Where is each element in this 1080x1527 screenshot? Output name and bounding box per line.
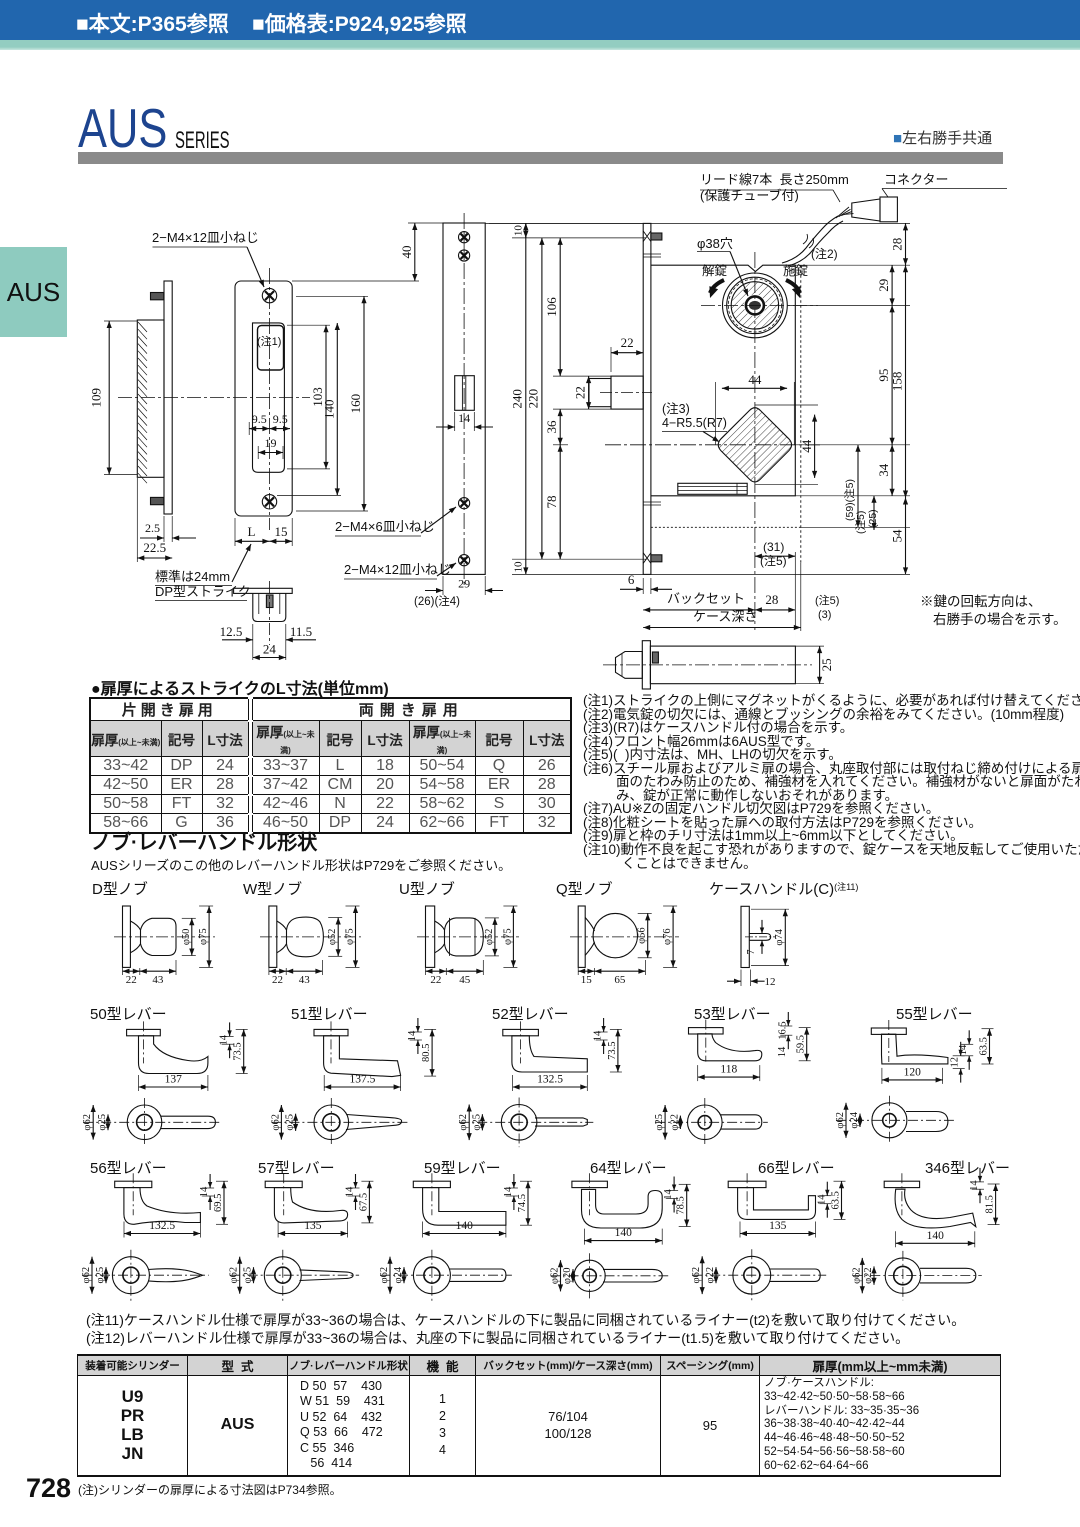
- Q knob: [578, 906, 585, 967]
- svg-text:120: 120: [904, 1066, 922, 1078]
- svg-text:φ25: φ25: [243, 1267, 254, 1284]
- dim 158: [905, 265, 907, 497]
- connector body: [852, 199, 880, 221]
- svg-text:132.5: 132.5: [149, 1220, 175, 1232]
- centerline strike views: [118, 397, 310, 399]
- svg-text:φ22: φ22: [863, 1267, 874, 1284]
- dim 240: [525, 223, 527, 574]
- faceplate dim 29: [442, 576, 444, 595]
- connector pins: [836, 207, 849, 218]
- svg-text:φ62: φ62: [458, 1114, 469, 1131]
- dim L 15: [234, 518, 236, 546]
- DP strike centerline: [268, 581, 270, 645]
- L dim table: [89, 697, 572, 834]
- cylinder: [723, 273, 788, 338]
- dim (31)(注5) horizontal: [755, 555, 795, 557]
- svg-text:15: 15: [581, 974, 593, 986]
- lever 51 side view: [314, 1029, 348, 1035]
- dim 54: [905, 498, 907, 575]
- W knob: [269, 906, 277, 967]
- D knob: [123, 906, 131, 967]
- case outline: [651, 265, 795, 496]
- svg-text:73.5: 73.5: [607, 1042, 618, 1060]
- svg-text:12: 12: [950, 1057, 961, 1068]
- faceplate latch window: [455, 376, 475, 411]
- deadbolt centerline: [603, 664, 812, 666]
- svg-text:14: 14: [958, 1044, 969, 1055]
- svg-text:118: 118: [720, 1064, 737, 1076]
- latch tail: [678, 483, 747, 494]
- svg-text:φ62: φ62: [82, 1114, 93, 1131]
- dim (注5)(25): [873, 496, 875, 530]
- svg-text:132.5: 132.5: [537, 1074, 563, 1086]
- svg-text:φ24: φ24: [849, 1111, 860, 1128]
- spec table: [77, 1354, 1001, 1477]
- lead wire label: [700, 189, 833, 191]
- svg-text:22: 22: [272, 974, 283, 986]
- notes 1-10: [583, 694, 1080, 870]
- strike side view plate: [164, 281, 172, 514]
- lever 56 side view: [115, 1181, 152, 1187]
- wire break marks: [803, 234, 808, 244]
- title AUS: [78, 101, 167, 156]
- lever 59 side view: [413, 1181, 450, 1187]
- case tab marks: [643, 253, 661, 255]
- knob section heading: [91, 826, 317, 855]
- svg-text:φ25: φ25: [654, 1114, 665, 1131]
- svg-text:φ25: φ25: [285, 1114, 296, 1131]
- faceplate screw 4: [459, 555, 470, 566]
- gray bar under title: [78, 152, 1003, 164]
- dim 34: [891, 445, 893, 496]
- svg-text:φ75: φ75: [345, 928, 356, 945]
- strike slot: [253, 323, 285, 472]
- strike magnet box (注1): [258, 326, 284, 371]
- lever 55 front view: [872, 1103, 907, 1138]
- svg-text:74.5: 74.5: [517, 1194, 528, 1212]
- lever 51 front view: [314, 1105, 349, 1140]
- case handle dim 7: [761, 920, 763, 934]
- lock case faceplate strip: [643, 223, 651, 574]
- right dims ext ticks: [485, 222, 910, 224]
- svg-text:φ22: φ22: [705, 1267, 716, 1284]
- dim 106: [559, 238, 561, 376]
- svg-text:φ25: φ25: [97, 1114, 108, 1131]
- svg-text:14: 14: [777, 1046, 788, 1057]
- svg-text:81.5: 81.5: [985, 1195, 996, 1213]
- dim 95: [891, 305, 893, 444]
- hub dim 44 horizontal: [715, 382, 717, 445]
- lever 50 side view: [127, 1029, 161, 1035]
- lever row2 labels: [90, 1157, 167, 1178]
- notes 11-12: [86, 1312, 965, 1347]
- lever 66 side view: [728, 1181, 766, 1187]
- svg-text:45: 45: [459, 974, 471, 986]
- svg-text:φ75: φ75: [502, 928, 513, 945]
- lever 346 side view: [884, 1181, 919, 1187]
- lever 66 front view: [733, 1256, 771, 1294]
- svg-text:135: 135: [304, 1220, 322, 1232]
- lever 56 front view: [112, 1257, 149, 1294]
- case dotted MH/LH line: [651, 526, 801, 528]
- faceplate front view: [443, 223, 485, 574]
- svg-text:φ25: φ25: [95, 1267, 106, 1284]
- svg-text:63.5: 63.5: [979, 1037, 990, 1055]
- svg-text:22: 22: [126, 974, 137, 986]
- wire to connector: [782, 216, 838, 263]
- svg-text:φ22: φ22: [669, 1114, 680, 1131]
- lever 52 front view: [501, 1105, 537, 1141]
- case mounting screw top: [651, 233, 662, 240]
- dim 2.5: [163, 516, 165, 542]
- case handle dim 12: [740, 970, 742, 987]
- dim 22 vertical (block): [588, 376, 590, 409]
- header teal strip: [0, 40, 1080, 50]
- svg-text:69.5: 69.5: [213, 1194, 224, 1212]
- dim 22 above block: [610, 347, 612, 372]
- strike front centerline: [269, 268, 271, 530]
- dim 10 top: [525, 223, 527, 238]
- dim 140: [277, 494, 341, 496]
- svg-text:78.5: 78.5: [676, 1196, 687, 1214]
- 施錠 arrow: [786, 280, 800, 293]
- svg-text:12: 12: [765, 976, 776, 988]
- lever 52 side view: [503, 1029, 539, 1035]
- deadbolt bolt head: [616, 652, 643, 679]
- dim 28 right top: [905, 223, 907, 265]
- lever 57 side view: [265, 1181, 302, 1187]
- lever 53 side view: [689, 1028, 724, 1034]
- ケース深さ dim: [643, 627, 801, 629]
- hub dim 44 vertical: [755, 404, 818, 406]
- case mounting screw bottom: [651, 555, 662, 562]
- svg-text:φ56: φ56: [637, 927, 648, 944]
- dim 40: [292, 280, 419, 282]
- strike side screw top: [151, 293, 164, 300]
- lever 346 front view: [885, 1258, 920, 1293]
- case vertical centerline: [754, 252, 756, 630]
- svg-text:140: 140: [927, 1230, 945, 1242]
- lever 50 front view: [127, 1105, 162, 1140]
- deadbolt left plate: [642, 641, 650, 689]
- svg-text:80.5: 80.5: [421, 1044, 432, 1062]
- svg-text:φ20: φ20: [562, 1268, 573, 1285]
- svg-text:φ62: φ62: [81, 1267, 92, 1284]
- svg-text:43: 43: [152, 974, 164, 986]
- DP strike body: [253, 593, 286, 621]
- faceplate screw 2: [459, 250, 470, 261]
- lever 57 front view: [264, 1257, 301, 1294]
- svg-text:φ24: φ24: [393, 1266, 404, 1283]
- svg-text:73.5: 73.5: [233, 1042, 244, 1060]
- svg-text:137.5: 137.5: [349, 1074, 375, 1086]
- dim 78: [559, 445, 561, 559]
- knob labels: [92, 878, 148, 899]
- svg-text:22: 22: [430, 974, 441, 986]
- case horizontal centerline: [605, 444, 820, 446]
- cylinder h-centerline: [701, 304, 818, 306]
- lever 64 front view: [574, 1260, 605, 1291]
- lever 53 front view: [688, 1105, 723, 1140]
- case handle dim phi74: [784, 909, 786, 965]
- header blue bar: [0, 0, 1080, 40]
- label 2-M4x6: [335, 535, 421, 537]
- svg-text:φ62: φ62: [851, 1267, 862, 1284]
- svg-text:16.5: 16.5: [777, 1021, 788, 1039]
- deadbolt dim 25: [795, 645, 824, 647]
- svg-text:137: 137: [165, 1074, 183, 1086]
- U knob: [426, 906, 435, 967]
- left dims: ext ticks: [489, 222, 643, 224]
- svg-text:65: 65: [614, 974, 626, 986]
- svg-text:φ75: φ75: [198, 928, 209, 945]
- faceplate centerline: [463, 213, 465, 586]
- svg-text:φ52: φ52: [484, 929, 495, 946]
- header text: [76, 8, 467, 38]
- svg-text:φ62: φ62: [835, 1112, 846, 1129]
- svg-text:67.5: 67.5: [358, 1193, 369, 1211]
- 解錠 arrow: [710, 280, 724, 293]
- left block (22): [611, 376, 643, 409]
- svg-text:φ25: φ25: [471, 1114, 482, 1131]
- strike side view body: [137, 320, 164, 477]
- svg-text:φ62: φ62: [270, 1114, 281, 1131]
- lever 59 front view: [413, 1257, 450, 1294]
- section heading L-dim table: [91, 675, 389, 699]
- dim 22.5: [136, 478, 138, 562]
- svg-text:φ62: φ62: [691, 1267, 702, 1284]
- svg-text:140: 140: [456, 1220, 474, 1232]
- deadbolt pin: [652, 652, 658, 663]
- svg-text:7: 7: [746, 950, 757, 955]
- svg-text:φ62: φ62: [379, 1267, 390, 1284]
- connector label コネクター: [882, 188, 1007, 190]
- lever 55 side view: [871, 1028, 906, 1034]
- case secondary right line: [800, 265, 802, 563]
- faceplate screw 3: [459, 498, 470, 509]
- faceplate screw 1: [459, 232, 470, 243]
- right label 左右勝手共通: [893, 127, 992, 148]
- svg-text:59.5: 59.5: [796, 1035, 807, 1053]
- svg-text:140: 140: [615, 1227, 633, 1239]
- AUS side tab: [0, 247, 67, 337]
- strike side screw bottom: [151, 497, 164, 504]
- svg-text:135: 135: [769, 1220, 787, 1232]
- label 2-M4x12 screws (top): [153, 246, 248, 248]
- label 2-M4x12 (bottom): [344, 578, 437, 580]
- dim 29: [891, 265, 893, 305]
- dim 109: [104, 320, 137, 322]
- svg-text:φ62: φ62: [229, 1267, 240, 1284]
- φ38穴 label: [697, 251, 730, 253]
- svg-text:φ74: φ74: [774, 928, 785, 945]
- lever row1 labels: [90, 1003, 167, 1024]
- dim (59)(注5): [857, 445, 859, 528]
- square hub: [718, 408, 791, 482]
- label 標準は24mm DP型ストライク: [155, 585, 232, 587]
- svg-text:φ76: φ76: [662, 928, 673, 945]
- svg-text:43: 43: [299, 974, 311, 986]
- dim 36: [559, 409, 561, 445]
- svg-text:φ52: φ52: [327, 929, 338, 946]
- deadbolt body: [650, 646, 795, 684]
- strike screw top: [262, 288, 276, 302]
- dim 220: [541, 238, 543, 559]
- svg-text:63.5: 63.5: [831, 1191, 842, 1209]
- (注3) 4-R5.5(R7) label: [662, 431, 727, 433]
- strike screw bottom: [262, 495, 276, 509]
- DP strike pin: [266, 595, 273, 608]
- case handle C: [741, 906, 749, 967]
- strike front plate: [235, 281, 292, 516]
- svg-text:φ50: φ50: [181, 929, 192, 946]
- dim 103: [287, 324, 330, 326]
- lever 64 side view: [572, 1181, 608, 1187]
- svg-text:φ62: φ62: [550, 1268, 561, 1285]
- dim 160: [296, 295, 368, 297]
- DP strike flange: [234, 588, 293, 593]
- page footer: [26, 1473, 71, 1504]
